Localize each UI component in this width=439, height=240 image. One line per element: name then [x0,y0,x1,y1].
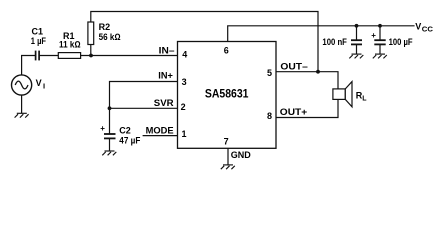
svg-text:2: 2 [181,102,186,112]
wire: 100uF cap bottom lead to ground [379,45,381,53]
svg-text:IN–: IN– [159,45,175,55]
wire: MODE pin 1 open stub [143,135,177,137]
capacitor 100nF [351,40,362,44]
svg-text:R2: R2 [99,22,111,32]
wire: C1 right plate to R1 [40,55,58,57]
wire: 100nF cap bottom lead to ground [356,45,358,53]
capacitor C2 (polarized) [104,134,116,138]
ground (below V1) [15,113,29,117]
wire: C2 bottom to ground [109,139,111,150]
wire: VCC rail from pin 6 to VCC terminal [228,26,414,42]
svg-text:V: V [36,78,42,88]
svg-text:6: 6 [224,46,229,56]
wire: 100uF cap top lead [379,26,381,40]
wire: V1 bottom to ground [21,95,23,113]
node: 100nF on VCC rail [355,24,359,28]
node: R1/R2 junction [89,54,93,58]
svg-text:SVR: SVR [154,98,174,108]
svg-text:100 µF: 100 µF [389,37,413,47]
svg-text:C2: C2 [119,126,131,136]
svg-text:7: 7 [224,136,229,146]
capacitor 100uF (polarized) [374,40,385,44]
op-amp U1 SA58631 body [178,42,277,149]
wire: OUT+ pin 8 to speaker bottom [276,99,338,117]
svg-text:+: + [371,31,376,40]
ground (below 100nF) [349,54,363,58]
wire: IN+ pin 3 to decoupling node [110,82,178,134]
label R_L [356,91,368,103]
wire: 100nF cap top lead [356,26,358,40]
wire: R1 to IN- pin 4 of IC [81,55,178,57]
svg-text:MODE: MODE [146,125,174,135]
svg-text:1: 1 [182,129,187,139]
wire: GND pin 7 to ground [227,148,229,164]
svg-text:+: + [100,124,105,133]
label V_I [36,78,45,90]
svg-text:SA58631: SA58631 [205,88,249,101]
wire: SVR pin 2 stub [110,107,178,109]
svg-text:V: V [415,21,421,31]
node: IN+/SVR junction [108,106,112,110]
svg-text:GND: GND [231,150,252,160]
svg-text:8: 8 [267,111,272,121]
wire: OUT- pin 5 to speaker top [276,72,338,89]
capacitor C1 [36,51,40,61]
resistor R2 [88,22,94,45]
svg-text:1 µF: 1 µF [31,36,47,46]
svg-text:L: L [362,96,367,103]
net label VCC [415,21,433,33]
svg-text:3: 3 [182,77,187,87]
wire: R2 top lead / feedback rail to OUT- node [91,12,318,72]
node: feedback/OUT- junction [316,70,320,74]
source V1 [12,75,32,95]
svg-text:56 kΩ: 56 kΩ [99,32,121,42]
wire: input from V1 top to C1 left plate [22,56,35,75]
svg-text:I: I [43,81,45,90]
speaker RL [333,82,352,107]
ground (below 100uF) [373,54,387,58]
resistor R1 [58,53,80,59]
svg-text:IN+: IN+ [158,70,173,80]
svg-text:47 µF: 47 µF [119,135,140,145]
svg-text:11 kΩ: 11 kΩ [59,40,81,50]
svg-text:100 nF: 100 nF [322,37,347,47]
svg-text:5: 5 [267,68,272,78]
svg-text:OUT–: OUT– [280,61,307,71]
svg-text:C1: C1 [32,27,44,37]
svg-text:CC: CC [422,26,433,33]
node: 100uF on VCC rail [378,24,382,28]
wire: R2 bottom lead to input node [90,45,92,56]
ground (below C2) [102,151,116,155]
svg-text:OUT+: OUT+ [280,107,307,117]
ground (below pin 7) [221,165,235,169]
svg-text:4: 4 [182,49,187,59]
